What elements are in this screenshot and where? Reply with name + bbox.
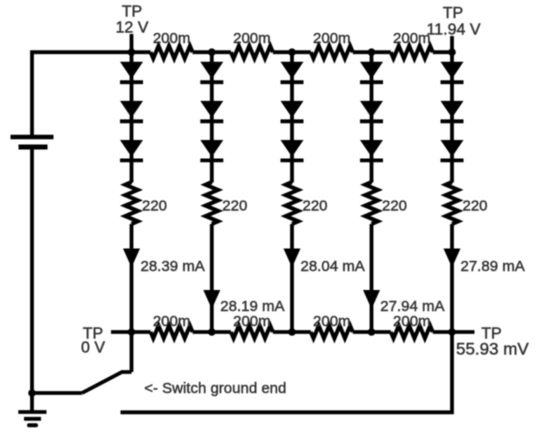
diode D1 (branch A top) [120, 62, 143, 79]
junction node branch C top [288, 48, 296, 56]
resistor R12 220 (branch D) [365, 182, 378, 224]
wire top rail right segment [433, 50, 452, 54]
diode D15 cathode bar [441, 158, 464, 162]
svg-text:28.04 mA: 28.04 mA [301, 258, 365, 275]
battery V1 positive plate [11, 135, 54, 140]
wire top rail left segment [32, 52, 151, 137]
diode D10 (branch D top) [360, 62, 383, 79]
wire branch A vertical [130, 52, 134, 182]
diode D4 cathode bar [200, 80, 223, 84]
svg-text:200m: 200m [153, 313, 191, 330]
junction node branch D bottom [368, 328, 376, 336]
junction node branch C bottom [288, 328, 296, 336]
wire bottom rail right stub (node 55.93 mV) [433, 330, 475, 334]
current arrow branch A [123, 249, 140, 268]
wire battery negative to switch common [30, 147, 34, 393]
svg-text:TP: TP [122, 4, 142, 21]
resistor R3 200m (top rail, between branch C and D) [311, 46, 353, 59]
resistor R10 220 (branch B) [206, 182, 219, 224]
resistor R5 200m (bottom rail, between branch A and B) [151, 326, 193, 339]
wire bottom rail left stub (node 0 V) [111, 330, 151, 334]
svg-text:<- Switch ground end: <- Switch ground end [144, 380, 286, 397]
wire branch E vertical [450, 52, 454, 182]
diode D5 (branch B middle) [200, 101, 223, 118]
svg-text:TP: TP [443, 5, 463, 22]
svg-text:28.39 mA: 28.39 mA [141, 258, 205, 275]
svg-text:220: 220 [303, 198, 328, 215]
junction node branch A top [128, 48, 136, 56]
resistor R1 200m (top rail, between branch A and B) [151, 46, 193, 59]
wire top rail segment 4 [353, 50, 391, 54]
wire top rail segment 2 [193, 50, 231, 54]
diode D12 (branch D bottom) [360, 140, 383, 157]
diode D13 (branch E top) [441, 62, 464, 79]
diode D13 cathode bar [441, 80, 464, 84]
resistor R11 220 (branch C) [286, 182, 299, 224]
diode D7 cathode bar [281, 80, 304, 84]
diode D9 cathode bar [281, 158, 304, 162]
wire bottom rail segment 4 [353, 330, 391, 334]
wire switch throw contact [32, 391, 82, 395]
wire TP stub top-right (node 11.94 V) [450, 36, 454, 52]
wire bottom rail segment 3 [273, 330, 311, 334]
diode D5 cathode bar [200, 119, 223, 123]
wire return loop from right end to switch area [121, 332, 453, 412]
svg-text:220: 220 [222, 198, 247, 215]
svg-text:220: 220 [463, 198, 488, 215]
diode D2 (branch A middle) [120, 101, 143, 118]
diode D9 (branch C bottom) [281, 140, 304, 157]
diode D11 cathode bar [360, 119, 383, 123]
diode D8 cathode bar [281, 119, 304, 123]
diode D6 cathode bar [200, 158, 223, 162]
wire TP stub top-left (node 12 V) [130, 34, 134, 52]
diode D11 (branch D middle) [360, 101, 383, 118]
wire branch B lower [210, 224, 214, 332]
junction node branch E bottom [448, 328, 456, 336]
wire bottom rail segment 2 [193, 330, 231, 334]
svg-text:27.89 mA: 27.89 mA [461, 258, 525, 275]
svg-text:220: 220 [142, 198, 167, 215]
svg-text:55.93 mV: 55.93 mV [456, 339, 529, 358]
svg-text:200m: 200m [313, 30, 351, 47]
resistor R6 200m (bottom rail, between branch B and C) [231, 326, 273, 339]
wire branch A lower [130, 224, 134, 332]
wire branch B vertical [210, 52, 214, 182]
wire branch D lower [370, 224, 374, 332]
svg-text:11.94 V: 11.94 V [427, 21, 481, 38]
diode D2 cathode bar [120, 119, 143, 123]
svg-text:200m: 200m [393, 30, 431, 47]
diode D14 (branch E middle) [441, 101, 464, 118]
diode D14 cathode bar [441, 119, 464, 123]
resistor R9 220 (branch A) [125, 182, 138, 224]
current arrow branch C [284, 249, 301, 268]
diode D4 (branch B top) [200, 62, 223, 79]
diode D3 (branch A bottom) [120, 140, 143, 157]
wire branch C vertical [290, 52, 294, 182]
junction node branch B bottom [208, 328, 216, 336]
svg-text:220: 220 [382, 198, 407, 215]
wire ground stub [30, 393, 34, 411]
diode D15 (branch E bottom) [441, 140, 464, 157]
svg-text:200m: 200m [393, 313, 431, 330]
wire top rail segment 3 [273, 50, 311, 54]
diode D8 (branch C middle) [281, 101, 304, 118]
diode D10 cathode bar [360, 80, 383, 84]
svg-text:200m: 200m [313, 313, 351, 330]
diode D7 (branch C top) [281, 62, 304, 79]
svg-text:12 V: 12 V [116, 20, 149, 37]
wire branch A below bottom rail to switch [130, 332, 134, 372]
junction node branch E top [448, 48, 456, 56]
diode D12 cathode bar [360, 158, 383, 162]
diode D6 (branch B bottom) [200, 140, 223, 157]
diode D1 cathode bar [120, 80, 143, 84]
battery V1 negative plate [19, 145, 48, 150]
svg-text:200m: 200m [233, 30, 271, 47]
current arrow branch B [203, 290, 220, 309]
junction node branch D top [368, 48, 376, 56]
resistor R2 200m (top rail, between branch B and C) [231, 46, 273, 59]
svg-text:200m: 200m [153, 30, 191, 47]
resistor R8 200m (bottom rail, between branch D and E) [391, 326, 433, 339]
wire branch E lower [450, 224, 454, 332]
svg-text:0 V: 0 V [81, 340, 105, 357]
resistor R13 220 (branch E) [446, 182, 459, 224]
diode D3 cathode bar [120, 158, 143, 162]
current arrow branch E [444, 249, 461, 268]
svg-text:200m: 200m [233, 313, 271, 330]
switch SW1 blade [82, 372, 132, 393]
resistor R7 200m (bottom rail, between branch C and D) [311, 326, 353, 339]
ground symbol [18, 412, 46, 425]
junction node branch B top [208, 48, 216, 56]
resistor R4 200m (top rail, between branch D and E) [391, 46, 433, 59]
wire branch C lower [290, 224, 294, 332]
junction node switch common [28, 389, 36, 397]
junction node branch A bottom [128, 328, 136, 336]
wire branch D vertical [370, 52, 374, 182]
current arrow branch D [363, 290, 380, 309]
